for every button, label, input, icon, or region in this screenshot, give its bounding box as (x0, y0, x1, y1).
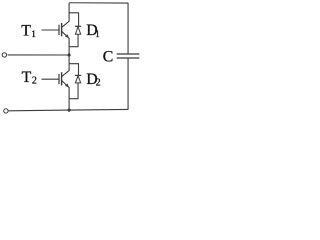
transistor T2 emitter lead (62, 81, 69, 111)
diode D2 cathode bar (75, 74, 81, 76)
diode D2 anode lead (77, 83, 79, 99)
transistor T2 collector lead (62, 55, 69, 77)
wire connector T2 emitter to D2 anode (69, 98, 79, 100)
transistor T2 body bar (61, 72, 63, 85)
transistor T1 emitter lead (62, 31, 69, 55)
diode D1 triangle (75, 27, 80, 35)
terminal circle bottom left (4, 109, 8, 113)
wire top rail (69, 2, 128, 4)
wire bottom rail (9, 109, 129, 110)
transistor T1 emitter arrow (65, 34, 69, 38)
svg-text:2: 2 (32, 76, 37, 87)
diode D2 triangle (75, 76, 80, 83)
transistor T1 gate bar (58, 25, 60, 35)
transistor T2 gate lead (42, 78, 59, 80)
transistor T2 emitter arrow (65, 84, 69, 88)
wire mid rail (phase node) (8, 54, 69, 56)
wire connector T1 emitter to D1 anode (69, 46, 79, 48)
capacitor C bottom plate (117, 57, 140, 59)
diode D1 anode lead (77, 34, 79, 47)
terminal circle mid left (2, 53, 6, 57)
wire right rail lower (127, 59, 129, 110)
svg-text:1: 1 (31, 30, 36, 40)
transistor T1 collector lead (62, 3, 69, 27)
capacitor C top plate (117, 53, 140, 55)
wire right rail upper (127, 3, 129, 54)
transistor T1 body bar (61, 23, 63, 36)
svg-text:2: 2 (96, 77, 101, 88)
svg-text:C: C (103, 49, 114, 66)
transistor T1 gate lead (42, 29, 59, 31)
svg-text:T: T (21, 23, 31, 40)
svg-text:1: 1 (95, 30, 100, 40)
wire connector T2 collector to D2 cathode (69, 64, 79, 76)
node junction dot bottom rail (68, 109, 71, 112)
diode D1 cathode bar (75, 25, 81, 27)
svg-text:T: T (22, 69, 32, 86)
node junction dot mid rail (68, 53, 71, 56)
transistor T2 gate bar (58, 74, 60, 84)
wire connector T1 collector to D1 cathode (69, 13, 79, 26)
